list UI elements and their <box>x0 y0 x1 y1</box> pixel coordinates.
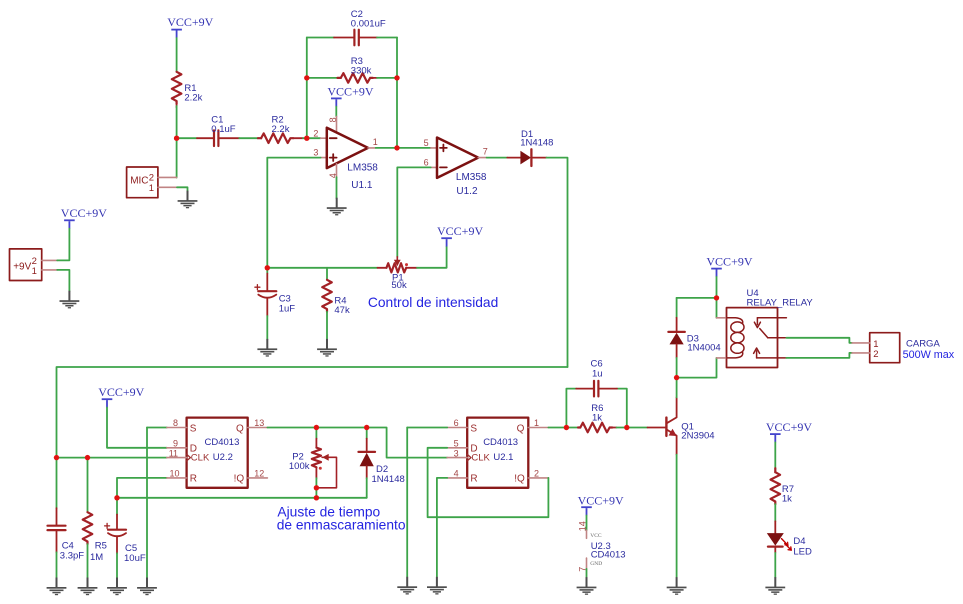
potentiometer P1 50k <box>378 257 418 273</box>
ground (+9V conn) <box>60 291 80 309</box>
svg-text:5: 5 <box>454 439 459 449</box>
label D1 <box>520 129 553 149</box>
wire S row from gnd column <box>147 427 167 429</box>
connector MIC <box>127 167 177 198</box>
svg-text:2: 2 <box>313 129 318 139</box>
svg-text:6: 6 <box>454 418 459 428</box>
junction P2 row <box>314 495 319 500</box>
svg-text:8: 8 <box>328 117 338 122</box>
power flag VCC+9V (U2.2) <box>98 385 144 408</box>
wire node to C1 <box>177 137 197 139</box>
ground (R4) <box>317 339 337 357</box>
svg-text:1k: 1k <box>592 413 602 424</box>
svg-text:CLK: CLK <box>471 453 490 464</box>
svg-text:U1.2: U1.2 <box>456 186 478 197</box>
wire LED to ground <box>774 553 776 577</box>
pin 4 stub <box>328 164 338 178</box>
power flag VCC+9V (U1.1 pin 8) <box>327 84 373 106</box>
power flag VCC+9V (R1 top) <box>167 15 213 38</box>
svg-text:RELAY_RELAY: RELAY_RELAY <box>747 298 814 309</box>
svg-text:VCC+9V: VCC+9V <box>167 15 213 29</box>
wire C4 to ground <box>56 552 58 577</box>
ground (U2.1 R) <box>427 577 447 595</box>
junction CLK/R5 <box>85 455 90 460</box>
svg-text:VCC+9V: VCC+9V <box>61 206 107 220</box>
wire R3 right <box>377 77 397 79</box>
svg-text:R: R <box>470 474 477 485</box>
svg-text:Q: Q <box>517 423 525 434</box>
label CD4013 U2.1 <box>483 437 518 463</box>
wire pin4 to ground <box>336 177 338 198</box>
svg-text:3.3pF: 3.3pF <box>60 550 84 561</box>
wire MIC pin1 to ground <box>177 187 188 191</box>
wire C2 top right <box>377 37 397 39</box>
wire R3 left <box>307 77 338 79</box>
svg-text:330k: 330k <box>351 65 372 76</box>
diode D2 1N4148 <box>359 428 376 479</box>
ground (U2.3) <box>577 577 597 595</box>
svg-text:2.2k: 2.2k <box>272 124 290 135</box>
ground (C5) <box>107 578 127 596</box>
svg-text:CD4013: CD4013 <box>591 550 626 561</box>
svg-text:U2.2: U2.2 <box>213 452 233 463</box>
label R1 <box>184 83 202 104</box>
wire +9V pin1 to ground <box>57 270 69 291</box>
junction P2 wiper bottom <box>314 485 319 490</box>
wire C2 right vertical <box>396 38 398 78</box>
svg-text:LM358: LM358 <box>347 163 378 174</box>
resistor R1 2.2k <box>172 72 182 108</box>
svg-text:5: 5 <box>424 138 429 148</box>
label C5 <box>124 543 146 564</box>
label R7 <box>782 484 794 505</box>
wire C3 to ground <box>266 316 268 339</box>
svg-text:2: 2 <box>873 349 878 360</box>
wire S gnd vertical <box>146 428 148 578</box>
label R3 <box>351 56 372 77</box>
LED D4 <box>767 521 791 553</box>
label C2 <box>351 9 386 30</box>
diode D3 1N4004 <box>668 298 684 378</box>
svg-text:50k: 50k <box>391 280 407 291</box>
potentiometer P2 100k <box>312 428 337 488</box>
svg-text:1k: 1k <box>782 494 792 505</box>
wire R2 to U1.1 pin2 <box>303 137 321 139</box>
svg-text:VCC+9V: VCC+9V <box>98 385 144 399</box>
diode D1 1N4148 <box>507 149 546 166</box>
label C3 <box>279 294 296 315</box>
junction CLK/C4 <box>54 455 59 460</box>
wire output node <box>376 147 431 149</box>
svg-text:U2.1: U2.1 <box>493 452 513 463</box>
svg-text:LED: LED <box>793 546 812 557</box>
svg-text:VCC+9V: VCC+9V <box>578 493 624 507</box>
wire VCC to D pin <box>107 408 167 448</box>
ground (C3) <box>257 339 277 357</box>
wire !Q2 feedback to D5 <box>428 448 549 517</box>
wire VCC to R7 <box>774 442 776 468</box>
svg-text:0.001uF: 0.001uF <box>351 19 386 30</box>
wire pin3 to C3 node <box>267 158 320 268</box>
wire R6 right <box>617 427 648 429</box>
label R4 <box>334 295 350 316</box>
pin 1 output stub <box>368 137 378 148</box>
junction C5 node <box>114 495 119 500</box>
wire NO contact to CARGA pin1 <box>786 338 852 343</box>
label U2.3 <box>591 541 626 561</box>
wire VCC to pin 8 <box>335 107 337 117</box>
svg-text:R5: R5 <box>95 540 107 551</box>
junction R3 right <box>394 75 399 80</box>
wire R4 to ground <box>326 312 328 340</box>
label C4 <box>60 540 84 561</box>
ground (U1.1) <box>327 198 347 216</box>
svg-text:8: 8 <box>173 418 178 428</box>
label CARGA <box>903 338 955 361</box>
ground (D4) <box>765 577 785 595</box>
wire P1 right to VCC <box>417 247 447 268</box>
wire C1 to R2 <box>239 137 258 139</box>
wire D1 to corner down <box>547 158 568 367</box>
svg-text:11: 11 <box>169 448 178 458</box>
op-amp U1.1 <box>327 128 368 168</box>
svg-text:VCC+9V: VCC+9V <box>706 255 752 269</box>
svg-text:!Q: !Q <box>514 474 525 485</box>
svg-text:+9V: +9V <box>13 262 31 273</box>
power flag VCC+9V (U2.3) <box>578 493 624 515</box>
svg-text:S: S <box>190 423 197 434</box>
svg-text:CLK: CLK <box>191 453 210 464</box>
svg-text:U1.1: U1.1 <box>351 180 373 191</box>
wire NC contact to CARGA pin2 <box>786 353 852 358</box>
label U4 <box>747 288 814 308</box>
svg-text:1: 1 <box>534 418 539 428</box>
wire R7 to LED <box>774 504 776 521</box>
svg-text:500W max: 500W max <box>903 349 955 361</box>
label Q1 <box>681 422 714 442</box>
svg-text:10: 10 <box>170 469 180 479</box>
svg-text:7: 7 <box>483 147 488 157</box>
junction node R2/U1.1 feedback <box>304 136 309 141</box>
label P1 <box>391 272 407 291</box>
wire Q1 out row <box>548 427 578 429</box>
label CD4013 U2.2 <box>205 437 240 463</box>
svg-text:VCC+9V: VCC+9V <box>437 224 483 238</box>
junction coil top node <box>714 295 719 300</box>
svg-text:VCC+9V: VCC+9V <box>327 84 373 98</box>
label LM358 U1.2 <box>456 172 487 197</box>
svg-text:S: S <box>470 423 477 434</box>
capacitor C6 1u <box>566 381 626 428</box>
wire C3 row <box>267 267 377 269</box>
pin 3 stub <box>313 148 327 158</box>
feedback left vertical wire <box>306 38 308 139</box>
ground (R5) <box>78 578 98 596</box>
resistor R6 1k <box>578 423 617 433</box>
svg-text:10uF: 10uF <box>124 553 146 564</box>
pin 6 stub <box>424 157 438 167</box>
connector +9V <box>10 249 58 281</box>
svg-text:9: 9 <box>173 439 178 449</box>
pin 7 output stub <box>478 147 488 158</box>
svg-text:VCC+9V: VCC+9V <box>766 420 812 434</box>
junction P2 top <box>314 425 319 430</box>
svg-text:3: 3 <box>454 448 459 458</box>
power flag VCC+9V (+9V conn) <box>61 206 107 229</box>
junction node R1/C1 <box>174 136 179 141</box>
label C6 <box>591 358 603 379</box>
IC U2.1 CD4013 <box>447 418 548 488</box>
wire U1.2 out to D1 <box>487 157 508 159</box>
annotation masking <box>277 504 406 532</box>
power flag VCC+9V (P1) <box>437 224 483 246</box>
svg-text:LM358: LM358 <box>456 172 487 183</box>
wire feedback right vertical to output node <box>396 78 398 148</box>
capacitor C3 1uF polarized <box>255 268 276 316</box>
resistor R4 47k <box>322 268 332 312</box>
ground (U2.2 S) <box>137 578 157 596</box>
svg-text:de enmascaramiento: de enmascaramiento <box>277 518 406 533</box>
wire P2 bottom <box>315 478 317 498</box>
wire D2 bottom <box>366 478 368 498</box>
wire R row <box>117 478 167 498</box>
label D2 <box>372 464 405 485</box>
wire C5 to ground <box>116 553 118 577</box>
junction R3 left <box>304 75 309 80</box>
wire Q1 collector up <box>676 378 678 398</box>
capacitor C4 3.3pF <box>48 458 66 553</box>
resistor R5 1M <box>83 458 93 545</box>
svg-text:1M: 1M <box>90 552 103 563</box>
label R5 <box>90 540 107 563</box>
svg-text:!Q: !Q <box>234 474 245 485</box>
svg-text:C5: C5 <box>125 543 137 554</box>
ground (MIC) <box>178 191 198 209</box>
svg-text:1uF: 1uF <box>279 303 296 314</box>
resistor R7 1k <box>771 468 781 504</box>
svg-text:47k: 47k <box>334 305 350 316</box>
svg-text:2N3904: 2N3904 <box>681 430 714 441</box>
label D4 <box>793 536 812 558</box>
connector CARGA <box>852 333 900 363</box>
svg-text:100k: 100k <box>289 461 310 472</box>
wire D3 top row <box>677 297 717 299</box>
capacitor C1 0.1uF <box>197 130 239 146</box>
wire R4 pin to ground <box>437 478 447 577</box>
wire CLK row <box>57 457 167 459</box>
relay U4 RELAY_RELAY <box>717 308 787 368</box>
pin 5 stub <box>424 138 438 148</box>
wire pin6 to P1 wiper <box>397 167 430 257</box>
wire masking row C5 to D2 <box>117 497 367 499</box>
svg-text:CARGA: CARGA <box>906 338 940 349</box>
svg-text:1N4148: 1N4148 <box>372 474 405 485</box>
resistor R2 2.2k <box>258 133 303 143</box>
label D3 <box>687 333 721 353</box>
wire S6 to ground column <box>407 427 447 429</box>
label R6 <box>591 403 603 424</box>
svg-text:12: 12 <box>254 469 264 479</box>
svg-text:CD4013: CD4013 <box>205 437 240 448</box>
ground (Q1) <box>667 577 687 595</box>
power flag VCC+9V (R7) <box>766 420 812 442</box>
power flag VCC+9V (relay) <box>706 255 752 277</box>
junction output U1.1 <box>394 145 399 150</box>
svg-text:Q: Q <box>236 423 244 434</box>
ground (U2.1 S) <box>397 577 417 595</box>
wire D3 bottom row <box>677 358 717 378</box>
junction R6 right <box>624 425 629 430</box>
ground (C4) <box>47 578 67 596</box>
wire R1 to C1 node down to MIC <box>176 106 178 178</box>
svg-text:2.2k: 2.2k <box>184 92 202 103</box>
wire +9V pin2 to VCC <box>57 229 69 261</box>
svg-text:3: 3 <box>313 148 318 158</box>
wire VCC to R1 <box>176 38 178 72</box>
wire R5 to ground <box>87 544 89 577</box>
wire Q1 emitter to ground <box>676 455 678 577</box>
svg-text:CD4013: CD4013 <box>483 437 518 448</box>
svg-text:1: 1 <box>373 137 378 147</box>
svg-text:D4: D4 <box>793 536 805 547</box>
wire long row to left <box>57 367 568 458</box>
transistor Q1 2N3904 <box>648 397 677 454</box>
svg-text:1: 1 <box>149 183 154 194</box>
svg-text:2: 2 <box>534 469 539 479</box>
wire VCC to coil node <box>716 277 718 318</box>
label LM358 U1.1 <box>347 163 378 191</box>
pin 8 stub <box>328 116 338 131</box>
svg-text:1u: 1u <box>592 368 603 379</box>
op-amp U1.2 <box>437 138 478 178</box>
label C1 <box>211 114 235 135</box>
svg-text:1N4004: 1N4004 <box>687 342 720 353</box>
junction R6 left <box>564 425 569 430</box>
wire Q13 row to CLK jog <box>267 428 447 458</box>
wire S gnd vertical <box>406 428 408 577</box>
pin 2 stub <box>313 129 327 139</box>
label P2 <box>289 451 310 472</box>
svg-text:1N4148: 1N4148 <box>520 138 553 149</box>
svg-text:R: R <box>190 474 197 485</box>
wire C2 top left <box>307 37 334 39</box>
resistor R3 330k <box>338 73 378 83</box>
IC U2.3 power pins <box>577 516 602 578</box>
label R2 <box>272 114 290 135</box>
svg-text:6: 6 <box>424 157 429 167</box>
svg-text:GND: GND <box>590 561 602 567</box>
junction D2 top <box>364 425 369 430</box>
junction C3 node <box>265 265 270 270</box>
svg-text:1: 1 <box>32 266 37 277</box>
svg-text:VCC: VCC <box>590 533 602 539</box>
svg-text:0.1uF: 0.1uF <box>211 124 235 135</box>
IC U2.2 CD4013 <box>167 418 268 488</box>
svg-text:4: 4 <box>454 469 459 479</box>
svg-text:14: 14 <box>577 521 587 531</box>
svg-text:Control de intensidad: Control de intensidad <box>368 295 498 310</box>
svg-text:13: 13 <box>254 418 264 428</box>
capacitor C2 0.001uF <box>334 30 377 46</box>
svg-text:MIC: MIC <box>130 176 148 187</box>
capacitor C5 10uF polarized <box>105 498 126 554</box>
junction collector node <box>674 375 679 380</box>
